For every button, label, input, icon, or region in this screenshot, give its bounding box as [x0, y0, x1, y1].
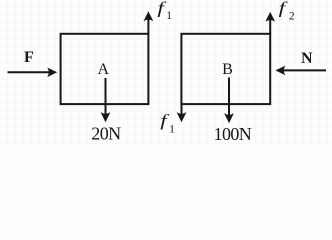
svg-text:2: 2	[289, 10, 295, 22]
arrowhead f1 down	[177, 112, 187, 122]
svg-text:B: B	[222, 61, 233, 78]
svg-text:100N: 100N	[214, 124, 252, 144]
svg-text:F: F	[24, 49, 34, 66]
wire: applied force F shaft	[8, 71, 50, 73]
label f1 (bottom, left of box B)	[160, 112, 175, 136]
svg-text:1: 1	[166, 10, 172, 22]
wire: weight 100N shaft (below B)	[228, 78, 230, 117]
wire: friction arrow shaft f1 down (box B bottom-left)	[181, 104, 183, 115]
svg-text:N: N	[301, 50, 313, 67]
label f2 (top, above box B)	[279, 0, 295, 22]
arrowhead N left	[275, 66, 285, 76]
wire: friction arrow shaft f1 up (box A top-right)	[147, 20, 149, 34]
label f1 (top, above box A)	[157, 0, 172, 22]
arrowhead F right	[47, 68, 57, 78]
arrowhead f1 up	[144, 11, 154, 21]
svg-text:A: A	[98, 61, 110, 78]
block B outline	[181, 34, 270, 104]
svg-text:20N: 20N	[91, 124, 121, 144]
arrowhead 100N down	[224, 113, 234, 123]
wire: weight 20N shaft (below A)	[105, 78, 107, 115]
svg-text:1: 1	[169, 123, 175, 135]
block A outline	[61, 34, 149, 104]
arrowhead f2 up	[265, 12, 275, 22]
wire: normal force N shaft	[283, 69, 326, 71]
arrowhead 20N down	[101, 112, 111, 122]
wire: friction arrow shaft f2 up (box B top-right)	[269, 20, 271, 34]
